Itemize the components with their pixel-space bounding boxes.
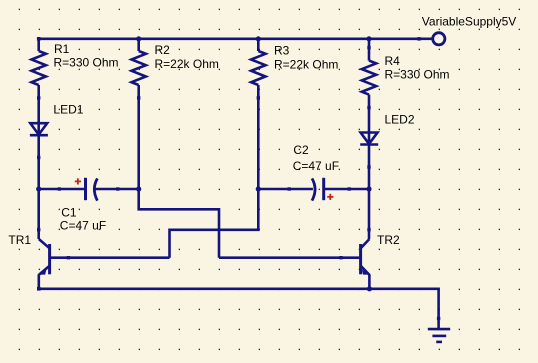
node TR2 base wire end: [339, 256, 342, 259]
node wire end before terminal: [417, 37, 421, 41]
resistor R3: [251, 39, 265, 100]
wire emitter rail: [39, 289, 439, 329]
svg-text:C=47 uF: C=47 uF: [293, 159, 339, 173]
wire LED1 to TR1 collector: [37, 158, 40, 240]
node TR2 emitter junction: [367, 286, 372, 291]
ground: [428, 329, 450, 342]
diode LED2: [360, 108, 378, 169]
wire R2 bottom to C1 junction: [137, 98, 140, 190]
svg-text:R4: R4: [385, 54, 401, 68]
svg-text:R1: R1: [54, 42, 70, 56]
wire R3 to TR1 base (cross coupling): [170, 189, 259, 258]
svg-text:C=47 uF: C=47 uF: [60, 219, 106, 233]
wire LED2 to TR2 collector: [368, 167, 371, 239]
node TR1 base wire end: [67, 256, 70, 259]
wire R3 bottom to C2 junction: [257, 98, 260, 190]
svg-text:R3: R3: [274, 44, 290, 58]
svg-text:C1: C1: [61, 206, 77, 220]
svg-text:LED2: LED2: [385, 113, 415, 127]
capacitor C1: [39, 178, 139, 201]
node top-left corner: [37, 37, 41, 41]
resistor R4: [362, 39, 376, 110]
svg-text:R=22k Ohm: R=22k Ohm: [274, 58, 338, 72]
svg-text:R=330 Ohm: R=330 Ohm: [385, 68, 450, 82]
node TR1 collector wire end: [37, 228, 40, 231]
transistor TR1: [39, 239, 50, 289]
svg-text:R=22k Ohm: R=22k Ohm: [155, 57, 219, 71]
svg-text:TR2: TR2: [377, 233, 400, 247]
wire top rail: [39, 37, 419, 40]
wire R2 to TR2 base (cross coupling): [139, 189, 219, 258]
svg-text:C2: C2: [293, 143, 309, 157]
resistor R2: [132, 39, 146, 100]
node ground wire end: [437, 317, 440, 320]
node bottom-left corner: [37, 287, 41, 291]
svg-text:R2: R2: [155, 43, 171, 57]
node R3 top junction: [256, 36, 261, 41]
node R4 top junction: [366, 36, 371, 41]
node TR2 collector wire end: [367, 228, 370, 231]
wire terminal lead: [419, 37, 432, 40]
wire TR1 base: [51, 256, 170, 259]
resistor R1: [32, 39, 46, 100]
polarity plus C2: [327, 194, 333, 200]
node R2 top junction: [136, 36, 141, 41]
diode LED1: [30, 98, 48, 160]
node R2-C1 junction: [136, 186, 141, 191]
node C2 right junction: [366, 186, 371, 191]
capacitor C2: [258, 178, 369, 201]
terminal VariableSupply5V: [433, 33, 445, 45]
node C1 left junction: [36, 186, 41, 191]
svg-text:LED1: LED1: [53, 103, 83, 117]
svg-text:VariableSupply5V: VariableSupply5V: [422, 14, 517, 28]
transistor TR2: [361, 239, 370, 289]
polarity plus C1: [75, 178, 81, 184]
node R3-C2 junction: [256, 186, 261, 191]
wire TR2 base: [219, 256, 359, 259]
svg-text:R=330 Ohm: R=330 Ohm: [54, 56, 119, 70]
svg-text:TR1: TR1: [8, 233, 31, 247]
